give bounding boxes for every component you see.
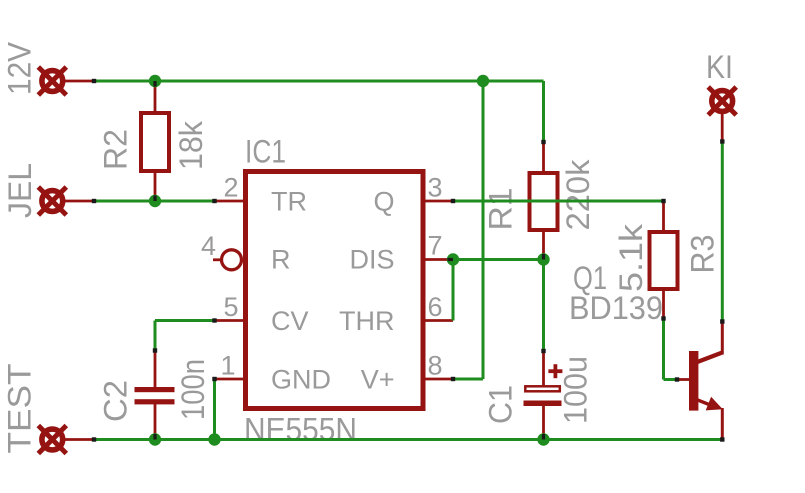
- svg-text:CV: CV: [271, 306, 309, 336]
- capacitor C2 top lead: [154, 351, 157, 388]
- IC1 pin 4 inversion bubble: [222, 250, 242, 270]
- svg-text:DIS: DIS: [349, 245, 394, 275]
- connector 12V stub wire: [64, 80, 94, 83]
- svg-text:100u: 100u: [558, 356, 594, 424]
- svg-text:100n: 100n: [175, 359, 211, 420]
- capacitor C2 bottom lead: [154, 404, 157, 440]
- svg-text:18k: 18k: [173, 120, 209, 170]
- IC1 pin 3 lead: [423, 200, 453, 203]
- svg-text:2: 2: [223, 173, 238, 203]
- resistor R1 top lead: [542, 142, 545, 173]
- svg-text:Q: Q: [373, 187, 394, 217]
- svg-text:BD139: BD139: [569, 290, 663, 326]
- wire V+ rail to pin 8: [453, 378, 483, 381]
- wire V+ rail vertical: [482, 81, 485, 379]
- capacitor C2 100n top plate: [135, 387, 175, 392]
- capacitor C1 top lead: [542, 351, 545, 386]
- junction R1 bottom node: [537, 253, 549, 265]
- transistor Q1 base lead: [677, 378, 689, 381]
- svg-text:NE555N: NE555N: [244, 412, 357, 448]
- connector TEST (circled X): [38, 426, 66, 454]
- connector JEL (circled X): [38, 187, 66, 215]
- IC1 pin 8 lead: [423, 378, 453, 381]
- junction 12V to V+ rail: [477, 75, 489, 87]
- IC1 pin 1 lead: [215, 378, 246, 381]
- transistor Q1 emitter diagonal: [696, 399, 714, 406]
- svg-text:1: 1: [220, 351, 235, 381]
- wire CV down to C2: [154, 321, 157, 351]
- IC1 pin 6 lead: [423, 319, 453, 322]
- resistor R2 bottom lead: [154, 171, 157, 201]
- resistor R1 220k body: [530, 173, 558, 230]
- capacitor C1 positive plate (hollow): [525, 386, 560, 391]
- transistor Q1 collector lead: [721, 322, 724, 355]
- junction C2 bottom: [149, 433, 161, 445]
- resistor R3 5.1k body: [650, 232, 678, 289]
- capacitor C1 negative plate: [524, 401, 562, 407]
- wire DIS to THR: [452, 260, 455, 321]
- connector JEL stub wire: [64, 200, 94, 203]
- transistor Q1 BD139 base bar: [689, 351, 698, 411]
- svg-text:7: 7: [428, 231, 443, 261]
- svg-text:TR: TR: [271, 187, 307, 217]
- connector KI (circled X): [708, 87, 736, 115]
- resistor R1 bottom lead: [542, 230, 545, 260]
- wire R3 bottom to base column: [662, 319, 665, 380]
- connector TEST stub wire: [64, 438, 94, 441]
- capacitor C1 bottom lead: [542, 406, 545, 440]
- op-amp ... IC1 NE555N body box: [246, 172, 424, 409]
- junction GND pin column: [208, 433, 220, 445]
- wire DIS to R1 bottom: [453, 258, 544, 261]
- wire Q output to R3: [453, 200, 664, 203]
- wire top rail corner down to R1: [542, 81, 545, 142]
- svg-text:R3: R3: [685, 235, 721, 274]
- junction DIS node: [447, 253, 459, 265]
- svg-text:R2: R2: [98, 129, 134, 170]
- svg-text:V+: V+: [361, 365, 395, 395]
- capacitor C2 100n bottom plate: [135, 399, 175, 404]
- svg-text:8: 8: [428, 351, 443, 381]
- svg-text:KI: KI: [706, 49, 733, 85]
- pin-end dots: [92, 79, 725, 442]
- IC1 pin 2 lead: [215, 200, 246, 203]
- svg-text:4: 4: [201, 231, 216, 261]
- svg-text:5: 5: [223, 292, 238, 322]
- svg-text:GND: GND: [271, 365, 331, 395]
- connector 12V (circled X): [38, 67, 66, 95]
- wire top rail 12V: [94, 80, 544, 83]
- svg-text:R: R: [271, 245, 291, 275]
- wire JEL to TR: [94, 200, 215, 203]
- resistor R3 bottom lead: [662, 289, 665, 319]
- junction JEL R2 bottom: [149, 195, 161, 207]
- resistor R3 top lead: [662, 201, 665, 232]
- wire to base: [664, 378, 678, 381]
- svg-text:5.1k: 5.1k: [613, 223, 649, 292]
- junction C1 bottom: [537, 433, 549, 445]
- svg-text:C2: C2: [98, 380, 134, 422]
- svg-text:220k: 220k: [560, 158, 596, 230]
- wire CV horizontal: [155, 319, 215, 322]
- junction 12V R2 top: [149, 75, 161, 87]
- connector KI stub wire: [721, 112, 724, 142]
- wire GND pin down: [213, 379, 216, 440]
- svg-text:TEST: TEST: [2, 364, 38, 454]
- svg-text:6: 6: [428, 292, 443, 322]
- svg-text:12V: 12V: [2, 41, 38, 95]
- resistor R2 18k body: [141, 113, 169, 171]
- transistor Q1 emitter arrowhead: [706, 397, 723, 411]
- IC1 pin 4 lead: [213, 258, 221, 261]
- wire KI to collector: [721, 142, 724, 322]
- transistor Q1 emitter lead: [721, 408, 724, 441]
- svg-text:C1: C1: [483, 385, 519, 424]
- svg-text:IC1: IC1: [245, 134, 286, 170]
- svg-text:3: 3: [428, 173, 443, 203]
- resistor R2 top lead: [154, 81, 157, 113]
- wire bottom rail TEST/GND: [94, 438, 722, 441]
- transistor Q1 collector diagonal: [696, 353, 722, 363]
- svg-text:THR: THR: [339, 306, 395, 336]
- capacitor C1 100u plus sign: [548, 364, 562, 378]
- svg-text:R1: R1: [483, 188, 519, 231]
- IC1 pin 5 lead: [215, 319, 246, 322]
- svg-text:JEL: JEL: [2, 163, 38, 218]
- IC1 pin 7 lead: [423, 258, 453, 261]
- wire R1 bottom to C1: [542, 260, 545, 352]
